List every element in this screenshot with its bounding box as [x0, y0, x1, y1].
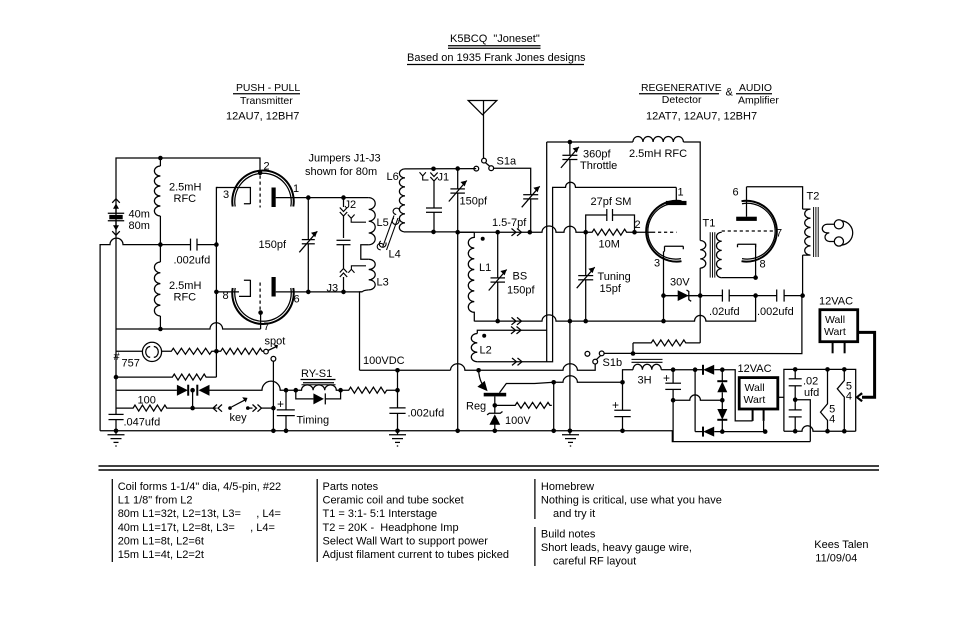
jumper chevrons L2 bottom: [512, 358, 522, 365]
capacitor Tuning 15pf variable: [577, 232, 631, 321]
notes column 2 bar: [316, 479, 318, 562]
transformer T1: [700, 218, 722, 278]
lamp #757: [114, 342, 162, 369]
svg-text:J2: J2: [345, 199, 357, 211]
svg-text:8: 8: [223, 290, 229, 302]
node diode center junction: [190, 388, 195, 393]
svg-text:AUDIO: AUDIO: [739, 83, 772, 94]
node J1 cap bottom junction: [431, 230, 436, 235]
node doubler bottom junction: [720, 429, 725, 434]
svg-text:.02: .02: [803, 376, 818, 388]
node raw DC / dropping junction: [551, 380, 556, 385]
wire ww2 output heavy to filament arrow: [857, 332, 875, 401]
node antenna cap top: [455, 166, 460, 171]
node doubler output junction: [671, 398, 676, 403]
node detector cathode at rail: [661, 319, 666, 324]
wire far-left vertical + mid rail hop over x=116: [100, 238, 160, 431]
svg-text:Throttle: Throttle: [580, 160, 617, 172]
capacitor 150pf tank variable: [259, 198, 318, 292]
svg-text:2: 2: [264, 161, 270, 173]
capacitor 1.5-7pf variable: [492, 186, 540, 232]
wire doubler left vertical: [694, 370, 696, 432]
svg-text:1.5-7pf: 1.5-7pf: [492, 217, 527, 229]
svg-text:Transmitter: Transmitter: [240, 95, 293, 107]
wall wart 12VAC heater: [819, 296, 858, 354]
wire 100VDC rail to S1b pole: [451, 364, 596, 371]
jumper chevrons L2 top: [511, 327, 521, 334]
notes column 3 bar upper: [534, 479, 536, 519]
wire S1b to audio return vertical: [604, 296, 802, 354]
wire 100VDC rail corner: [360, 369, 451, 371]
wire grid-leak vertical x=216: [216, 188, 217, 378]
wire choke output to doubler top rail: [673, 369, 695, 371]
svg-text:2: 2: [635, 219, 641, 231]
capacitor .002ufd output: [757, 290, 794, 319]
capacitor PSU electrolytic input: [612, 382, 631, 431]
svg-text:Short leads, heavy gauge wire,: Short leads, heavy gauge wire,: [541, 542, 692, 554]
capacitor BS 150pf variable: [489, 232, 536, 321]
svg-text:J1: J1: [438, 172, 450, 184]
svg-text:360pf: 360pf: [583, 149, 611, 161]
node doubler mid junction: [720, 398, 725, 403]
node Reg emitter junction: [476, 368, 481, 373]
node timing cap top junction: [284, 388, 289, 393]
heater pins 5/4 right: [837, 369, 852, 431]
capacitor Timing electrolytic: [277, 390, 329, 431]
inductor tank coil upper section (L4): [361, 198, 375, 260]
notes column 1 text: [118, 481, 282, 561]
node pin8 junction: [214, 290, 219, 295]
svg-text:Reg: Reg: [466, 401, 486, 413]
node RFC bottom junction: [158, 327, 163, 332]
diode zener 100V: [487, 405, 531, 430]
svg-text:Parts notes: Parts notes: [323, 481, 379, 493]
notes column 3 bar lower: [534, 527, 536, 566]
tube V2b audio amp envelope: [742, 201, 777, 262]
svg-text:4: 4: [829, 414, 835, 426]
wire audio plate to T2: [747, 187, 803, 209]
node audio cathode junction: [753, 275, 758, 280]
svg-text:key: key: [230, 412, 248, 424]
signature Kees Talen 11/09/04: [814, 539, 868, 565]
capacitor .002ufd PSU bypass: [389, 370, 444, 431]
capacitor 150pf antenna variable: [449, 169, 488, 233]
jumper chevrons RX input: [512, 229, 522, 236]
wire T1 secondary bottom to cathode junction: [722, 277, 756, 279]
diode pair back-to-back on keying line: [116, 381, 296, 396]
node cathode at .02 line: [753, 293, 758, 298]
svg-text:Select Wall Wart to support po: Select Wall Wart to support power: [323, 535, 489, 547]
svg-text:RY-S1: RY-S1: [301, 368, 332, 380]
svg-text:Adjust filament current to tub: Adjust filament current to tubes picked: [323, 549, 509, 561]
svg-text:80m: 80m: [129, 220, 150, 232]
notes column 2 text: [323, 481, 509, 561]
svg-text:100V: 100V: [505, 415, 531, 427]
heater pins 5/4 left: [821, 369, 836, 431]
wire T1 primary bottom to .02 line: [699, 268, 701, 296]
diode zener 30V: [664, 277, 701, 302]
node 100VDC junction: [395, 368, 400, 373]
svg-text:40m: 40m: [129, 209, 150, 221]
svg-text:spot: spot: [265, 336, 286, 348]
transistor Reg: [466, 370, 535, 412]
node dropping at rail: [551, 429, 556, 434]
inductor L6 antenna coil: [387, 169, 406, 232]
inductor L2: [471, 334, 491, 362]
svg-text:S1a: S1a: [497, 156, 517, 168]
svg-text:Wall: Wall: [825, 314, 845, 326]
svg-text:T2 = 20K - Headphone Imp: T2 = 20K - Headphone Imp: [323, 522, 459, 534]
capacitor .02 filament upper: [789, 369, 820, 399]
svg-text:careful RF layout: careful RF layout: [553, 556, 636, 568]
notes divider double rule: [99, 466, 880, 470]
node zener left junction: [661, 293, 666, 298]
node grid coupling right junction: [214, 242, 219, 247]
wire dropping vertical to rail: [553, 382, 555, 431]
node J3 bottom junction: [341, 290, 346, 295]
resistor 10M grid leak: [586, 229, 635, 250]
svg-text:80m L1=32t, L2=13t, L3= ,: 80m L1=32t, L2=13t, L3= , L4=: [118, 508, 281, 520]
wire raw DC rail y=382 collector to PSU: [535, 376, 623, 384]
svg-text:12AU7, 12BH7: 12AU7, 12BH7: [226, 111, 299, 123]
tube V1 lower internals: grid pin8, plate pin6, cathode dash: [216, 277, 308, 333]
node relay right junction: [338, 388, 343, 393]
jumper chevrons L1 bottom: [512, 317, 522, 324]
wire S1a to 1.5-7pf cap: [494, 168, 531, 195]
node BS cap top: [495, 230, 500, 235]
svg-text:11/09/04: 11/09/04: [815, 553, 857, 565]
title K5BCQ Joneset: [448, 33, 541, 48]
wire grid to tube pin2: [635, 231, 653, 233]
svg-text:100: 100: [138, 395, 156, 407]
tube V1 upper internals: grid pin3, plate pin1, cathode dash: [216, 161, 308, 208]
node RFC top junction: [158, 156, 163, 161]
inductor L1: [468, 232, 491, 321]
wire tank bottom to J3/coil: [308, 291, 362, 293]
ground symbol S1b area: [562, 429, 579, 447]
node RFC mid junction: [158, 242, 163, 247]
node key feed junction: [190, 406, 195, 411]
capacitor .02 filament lower: [789, 400, 802, 432]
node pin1 tank junction: [306, 195, 311, 200]
node throttle bottom: [568, 319, 573, 324]
node choke input junction: [620, 380, 625, 385]
switch S1b: [585, 351, 622, 369]
node choke output junction: [671, 367, 676, 372]
section header PUSH-PULL Transmitter: [226, 83, 300, 123]
wire antenna-ground vertical x=457.7: [457, 232, 459, 431]
node pin7 junction + lead: [258, 310, 263, 315]
tube V2a 12AT7 detector envelope: [646, 201, 681, 262]
switch S1a: [474, 156, 517, 172]
svg-text:100VDC: 100VDC: [363, 355, 405, 367]
jumper J2: [340, 198, 366, 238]
svg-text:Nothing is critical, use what: Nothing is critical, use what you have: [541, 495, 722, 507]
capacitor 40m/80m trimmer: [108, 199, 150, 235]
svg-text:K5BCQ "Joneset": K5BCQ "Joneset": [450, 33, 540, 45]
resistor to spot contact: [216, 348, 263, 354]
wire RX top rail y=142: [547, 141, 633, 143]
node second resistor left junction: [114, 375, 119, 380]
svg-text:Coil forms 1-1/4" dia, 4/5-pin: Coil forms 1-1/4" dia, 4/5-pin, #22: [118, 481, 282, 493]
jumper J1: [420, 172, 450, 208]
svg-text:4: 4: [846, 391, 852, 403]
wire B+ vertical x=546.7: [546, 142, 548, 362]
wire RFC to T1 top: [683, 142, 700, 241]
resistor audio cathode bias: [632, 343, 634, 354]
inductor 2.5mH RFC detector: [629, 137, 687, 161]
node J1 top junction: [431, 167, 436, 172]
wire ww1 output to filament box: [778, 396, 784, 398]
node throttle top: [568, 140, 573, 145]
svg-text:.002ufd: .002ufd: [408, 408, 445, 420]
svg-text:15pf: 15pf: [600, 283, 622, 295]
svg-text:L1: L1: [479, 262, 491, 274]
svg-text:Homebrew: Homebrew: [541, 481, 594, 493]
node doubler top left junction: [693, 367, 698, 372]
svg-text:7: 7: [264, 321, 270, 333]
svg-text:150pf: 150pf: [507, 285, 535, 297]
svg-text:RFC: RFC: [174, 193, 197, 205]
node ant vertical at rail: [455, 429, 460, 434]
diode D3 middle down: [717, 400, 727, 431]
node 100V zener at rail: [493, 429, 498, 434]
svg-text:3: 3: [223, 189, 229, 201]
wire filament centertap return: [795, 400, 810, 442]
subtitle Based on 1935 Frank Jones designs: [407, 52, 586, 65]
inductor tank coil lower section (L3): [363, 259, 376, 292]
svg-text:RFC: RFC: [174, 291, 197, 303]
svg-text:+: +: [612, 398, 619, 412]
diode D4 bottom: [695, 427, 765, 437]
wire doubler mid to reg collector line: [673, 395, 722, 400]
capacitor .047ufd: [109, 414, 161, 430]
wire bottom rail TX y=329 with hop: [116, 323, 261, 329]
svg-text:L2: L2: [480, 345, 492, 357]
svg-text:20m L1=8t, L2=6t: 20m L1=8t, L2=6t: [118, 535, 204, 547]
capacitor J1 tank fixed: [426, 208, 442, 232]
svg-text:ufd: ufd: [804, 387, 819, 399]
capacitor .02ufd coupling: [709, 290, 740, 319]
tube V2a internals plate pin1 grid pin2 cathode pin3: [635, 187, 687, 322]
inductor 2.5mH RFC upper: [154, 158, 201, 245]
wire .02 output line: [664, 295, 803, 297]
svg-text:Build notes: Build notes: [541, 529, 596, 541]
svg-text:757: 757: [122, 358, 140, 370]
svg-text:Detector: Detector: [662, 94, 702, 106]
svg-text:12VAC: 12VAC: [738, 363, 772, 375]
wire L6 top to S1a: [405, 168, 476, 170]
svg-text:L3: L3: [377, 277, 389, 289]
wire T1/cathode vertical lower: [699, 296, 701, 343]
jumper J3: [327, 266, 367, 295]
wire L1 bottom rail y=321 with hops: [474, 296, 755, 322]
wire L2 bottom to detector plate jog: [477, 182, 676, 362]
wire RX input line y=232 with hops: [458, 226, 586, 232]
wire choke input riser: [623, 370, 634, 383]
wire TX left vertical x=116 (trimmer/lamp/key bus): [115, 329, 117, 414]
svg-text:Based on 1935 Frank Jones desi: Based on 1935 Frank Jones designs: [407, 52, 586, 64]
svg-text:S1b: S1b: [603, 357, 623, 369]
svg-text:#: #: [114, 351, 121, 363]
node J2 top junction: [341, 195, 346, 200]
resistor 100: [116, 405, 193, 411]
section header REGENERATIVE Detector & AUDIO Amplifier: [639, 83, 779, 123]
resistor feedback row2: [116, 374, 216, 380]
node filament box bottom dots: [793, 429, 798, 434]
headphone jack symbol: [822, 220, 852, 246]
node filament box top dots: [793, 367, 798, 372]
svg-text:Wall: Wall: [745, 382, 765, 394]
inductor 2.5mH RFC lower: [154, 245, 201, 329]
diode D2 middle up: [717, 370, 727, 401]
svg-text:Wart: Wart: [824, 326, 846, 338]
ground rail bottom: [100, 431, 810, 442]
svg-text:and try it: and try it: [553, 508, 595, 520]
tube V1 12AU7 push-pull upper triode envelope: [232, 171, 293, 207]
svg-text:12AT7, 12AU7, 12BH7: 12AT7, 12AU7, 12BH7: [646, 111, 757, 123]
svg-text:Tuning: Tuning: [598, 271, 631, 283]
svg-text:3H: 3H: [638, 375, 652, 387]
svg-text:6: 6: [294, 294, 300, 306]
svg-text:Wart: Wart: [744, 394, 766, 406]
svg-text:Timing: Timing: [297, 415, 330, 427]
node S1b wire / cathode resistor junction: [631, 351, 636, 356]
node grid-leak / resistor junction: [214, 349, 219, 354]
node 1.5-7pf bottom: [528, 230, 533, 235]
notes column 1 bar: [111, 479, 113, 562]
tube V1 lower triode envelope: [232, 288, 294, 324]
svg-text:.047ufd: .047ufd: [124, 417, 161, 429]
svg-text:T2: T2: [807, 191, 820, 203]
node timing at rail: [284, 429, 289, 434]
capacitor PSU electrolytic output: [663, 370, 681, 442]
node BS bottom: [495, 319, 500, 324]
capacitor J2 fixed: [337, 240, 351, 268]
wire L2 top lead: [477, 330, 546, 333]
svg-text:3: 3: [654, 258, 660, 270]
node T1 bottom junction: [698, 293, 703, 298]
node grid RC right junction: [632, 230, 637, 235]
svg-text:T1 = 3:1- 5:1 Interstage: T1 = 3:1- 5:1 Interstage: [323, 508, 438, 520]
node PSU cap1 at rail: [620, 429, 625, 434]
svg-text:.02ufd: .02ufd: [709, 306, 740, 318]
svg-text:7: 7: [776, 228, 782, 240]
svg-text:J3: J3: [327, 283, 339, 295]
relay RY-S1: [296, 368, 341, 390]
diode D1 top: [695, 365, 722, 375]
svg-text:1: 1: [678, 187, 684, 199]
switch spot: [264, 336, 286, 431]
wire top rail TX (B- top): [116, 158, 260, 329]
svg-text:2.5mH: 2.5mH: [169, 280, 201, 292]
switch key: [193, 397, 274, 424]
resistor Reg base feed: [495, 402, 552, 408]
diode relay clamp: [296, 390, 341, 404]
svg-text:.002ufd: .002ufd: [757, 306, 794, 318]
svg-text:L5: L5: [377, 217, 389, 229]
svg-text:150pf: 150pf: [460, 196, 488, 208]
inductor L5/L4 swing link: [377, 208, 401, 288]
svg-text:&: &: [726, 87, 734, 99]
svg-text:2.5mH RFC: 2.5mH RFC: [629, 148, 687, 160]
resistor lamp series 1: [162, 348, 217, 354]
capacitor 27pf SM: [586, 196, 635, 232]
node key right junction on spot vertical: [271, 406, 276, 411]
svg-text:BS: BS: [513, 271, 528, 283]
capacitor 360pf throttle variable: [561, 142, 617, 431]
svg-text:T1: T1: [703, 218, 716, 230]
svg-text:REGENERATIVE: REGENERATIVE: [641, 83, 722, 94]
svg-text:8: 8: [760, 259, 766, 271]
wire L1 top to input line: [458, 231, 474, 233]
wire L6 tank bottom: [405, 231, 458, 233]
node tuning bottom: [583, 319, 588, 324]
svg-text:15m L1=4t, L2=2t: 15m L1=4t, L2=2t: [118, 549, 204, 561]
node pin6 tank junction: [306, 290, 311, 295]
node pin2 junction: [258, 171, 263, 176]
svg-text:40m L1=17t, L2=8t, L3= , L: 40m L1=17t, L2=8t, L3= , L4=: [118, 522, 275, 534]
svg-text:2.5mH: 2.5mH: [169, 182, 201, 194]
svg-text:6: 6: [733, 187, 739, 199]
svg-text:L4: L4: [389, 249, 401, 261]
svg-text:+: +: [663, 371, 670, 385]
svg-text:shown for 80m: shown for 80m: [305, 166, 377, 178]
svg-text:12VAC: 12VAC: [819, 296, 853, 308]
svg-text:150pf: 150pf: [259, 239, 287, 251]
node Reg base junction: [493, 403, 498, 408]
svg-text:Ceramic coil and tube socket: Ceramic coil and tube socket: [323, 495, 464, 507]
svg-text:Kees Talen: Kees Talen: [814, 539, 868, 551]
svg-text:.002ufd: .002ufd: [174, 255, 211, 267]
svg-text:L1 1/8" from L2: L1 1/8" from L2: [118, 495, 193, 507]
node filament cap mid: [793, 397, 798, 402]
node ww1 right prong at rail: [763, 429, 768, 434]
notes column 3 text: [541, 481, 722, 568]
antenna: [468, 101, 497, 159]
svg-text:+: +: [277, 397, 284, 411]
wire L3 bottom to 100VDC corner: [360, 292, 363, 370]
node antenna cap bottom: [455, 230, 460, 235]
wire diode center to key: [192, 390, 194, 408]
wall wart 12VAC PSU: [722, 363, 778, 432]
transformer T2: [803, 191, 820, 296]
node grid RC left junction: [583, 230, 588, 235]
svg-text:PUSH - PULL: PUSH - PULL: [236, 83, 300, 94]
resistor relay feed: [341, 387, 398, 393]
tube V2b internals plate pin6 grid pin7 cathode pin8: [722, 187, 782, 278]
svg-text:Jumpers J1-J3: Jumpers J1-J3: [309, 153, 381, 165]
inductor 3H filter choke: [632, 359, 674, 386]
svg-text:30V: 30V: [670, 277, 690, 289]
node doubler top right junction: [720, 367, 725, 372]
svg-text:1: 1: [293, 183, 299, 195]
label Jumpers J1-J3 shown for 80m: [305, 153, 381, 179]
node T2 bottom junction: [800, 293, 805, 298]
svg-text:27pf SM: 27pf SM: [591, 196, 632, 208]
node relay left junction: [294, 388, 299, 393]
wire tank top to J2/coil: [308, 197, 368, 199]
capacitor .002ufd grid coupling: [160, 239, 216, 267]
node 100VDC bypass top junction: [395, 388, 400, 393]
filament supply box: [784, 369, 856, 431]
svg-text:L6: L6: [387, 171, 399, 183]
svg-text:Amplifier: Amplifier: [738, 95, 779, 107]
ground symbol left: [108, 429, 125, 447]
svg-text:10M: 10M: [599, 239, 620, 251]
node spot vertical at rail: [271, 429, 276, 434]
ground symbol center: [389, 429, 406, 447]
